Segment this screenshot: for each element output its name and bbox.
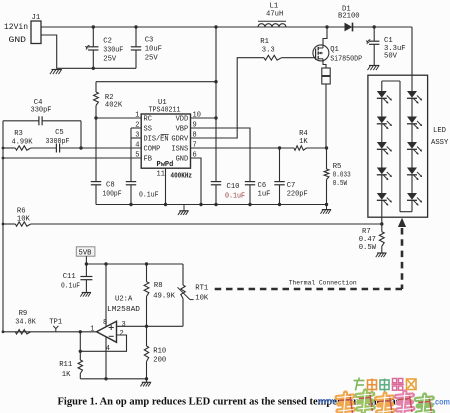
wire sense line left: [3, 223, 15, 225]
svg-text:0.1uF: 0.1uF: [61, 283, 80, 291]
op-amp U2:A: [97, 321, 117, 342]
junction RC: [94, 116, 97, 119]
junction Q1 drain: [325, 25, 328, 28]
junction VDD top: [214, 25, 217, 28]
resistor R3: [15, 146, 30, 150]
junction rail R5: [325, 203, 328, 206]
junction output node: [79, 330, 82, 333]
svg-text:C8: C8: [106, 182, 115, 190]
test point TP1: [55, 329, 57, 332]
wire R8 bottom: [146, 296, 148, 326]
wire pin4 ground drop: [105, 337, 107, 379]
junction R10 top: [145, 325, 148, 328]
wire Q1 drain: [323, 27, 327, 45]
svg-text:1uF: 1uF: [258, 191, 271, 199]
svg-text:1K: 1K: [62, 371, 71, 379]
resistor R5: [324, 169, 329, 180]
connector J1: [31, 21, 41, 44]
svg-text:4.99K: 4.99K: [12, 139, 34, 147]
svg-text:TPS40211: TPS40211: [149, 107, 181, 115]
junction R10 rail: [145, 377, 148, 380]
resistor R1: [264, 55, 282, 60]
svg-text:R5: R5: [333, 163, 342, 171]
svg-text:C1: C1: [384, 37, 393, 45]
svg-text:LM258AD: LM258AD: [107, 306, 140, 314]
wire: [411, 175, 413, 193]
svg-text:C6: C6: [258, 182, 267, 190]
svg-text:330pF: 330pF: [31, 107, 52, 115]
junction sense left: [2, 223, 5, 226]
ground J1: [52, 69, 62, 71]
wire ground rail: [96, 204, 327, 206]
svg-text:Figure 1. An op amp reduces LE: Figure 1. An op amp reduces LED current …: [58, 396, 409, 407]
wire left column top: [381, 81, 383, 91]
thermistor RT1: [181, 285, 185, 299]
svg-text:10K: 10K: [17, 216, 31, 224]
svg-text:11: 11: [157, 170, 165, 178]
capacitor C5: [55, 144, 57, 153]
junction 5VB rail: [85, 262, 88, 265]
svg-text:GND: GND: [176, 156, 189, 164]
svg-text:8: 8: [103, 319, 107, 327]
junction rail PwPd: [164, 203, 167, 206]
svg-text:2: 2: [120, 330, 124, 338]
svg-text:10uF: 10uF: [145, 46, 162, 54]
capacitor C11: [80, 276, 92, 278]
junction R8 top: [145, 262, 148, 265]
capacitor C1: [373, 27, 375, 41]
wire PwPd pin: [165, 168, 167, 204]
junction C4-COMP: [79, 146, 82, 149]
wire serpentine middle: [399, 81, 401, 212]
wire output: [3, 331, 97, 333]
svg-text:www.: www.: [317, 396, 337, 406]
svg-text:J1: J1: [32, 14, 41, 22]
svg-text:Q1: Q1: [330, 46, 339, 54]
svg-text:C10: C10: [227, 183, 240, 191]
wire RC pin: [96, 117, 141, 119]
junction FB left: [2, 157, 5, 160]
inductor L1: [258, 20, 286, 22]
svg-text:3: 3: [135, 132, 139, 140]
svg-text:ISNS: ISNS: [171, 146, 188, 154]
svg-text:R8: R8: [154, 282, 163, 290]
LED D4 right column: [407, 142, 417, 149]
junction C2 top: [92, 25, 95, 28]
svg-text:25V: 25V: [103, 56, 117, 64]
capacitor C2: [92, 27, 94, 47]
ground opamp: [146, 379, 148, 382]
junction rail GND pin: [199, 203, 202, 206]
svg-text:1K: 1K: [299, 138, 308, 146]
svg-text:.com: .com: [433, 397, 450, 407]
wire output drop: [79, 332, 81, 352]
wire GDRV: [191, 58, 265, 138]
wire: [411, 124, 413, 142]
wire Q1 source: [323, 61, 326, 68]
junction C7 tap: [278, 146, 281, 149]
LED D2 right column: [407, 91, 417, 98]
thermal arrowhead: [398, 218, 406, 227]
resistor R2: [94, 92, 99, 106]
watermark big characters: [337, 393, 354, 413]
ground R5 rail: [326, 205, 328, 210]
wire 5VB rail: [86, 263, 183, 265]
capacitor C3: [135, 27, 137, 47]
resistor R10: [146, 326, 148, 346]
junction COMP left: [2, 147, 5, 150]
svg-text:R3: R3: [14, 130, 23, 138]
resistor R4: [294, 146, 307, 150]
junction rail C6: [248, 203, 251, 206]
wire pin3 node: [117, 325, 184, 327]
wire R4 right: [307, 147, 327, 149]
svg-text:Thermal Connection: Thermal Connection: [289, 280, 357, 287]
svg-text:GDRV: GDRV: [171, 136, 189, 144]
wire R1 to gate: [282, 57, 315, 59]
svg-text:R4: R4: [299, 130, 308, 138]
LED D10 left column: [377, 168, 387, 175]
svg-text:0.1uF: 0.1uF: [225, 193, 245, 201]
svg-text:TP1: TP1: [49, 319, 62, 327]
svg-text:1: 1: [135, 112, 139, 120]
svg-text:34.8K: 34.8K: [15, 319, 36, 327]
wire ISNS pin: [191, 147, 295, 149]
wire R7 bottom: [381, 246, 383, 252]
svg-text:402K: 402K: [105, 101, 123, 109]
watermark small line GuangDianDianQiWang: [354, 378, 365, 391]
svg-text:U2:A: U2:A: [115, 296, 133, 304]
ground C1: [369, 65, 379, 67]
wire left rail: [2, 121, 4, 332]
LED D3 right column: [407, 117, 417, 124]
junction R7 sense: [380, 222, 383, 225]
svg-text:3300pF: 3300pF: [46, 138, 70, 146]
LED D8 left column: [377, 117, 387, 124]
wire: [411, 149, 413, 167]
svg-text:8: 8: [193, 132, 197, 140]
wire opamp V+ pin8: [105, 264, 107, 326]
svg-text:C2: C2: [103, 38, 112, 46]
svg-text:B2100: B2100: [338, 13, 360, 21]
ground R7: [377, 252, 386, 254]
component source pad boxes: [322, 68, 330, 76]
wire SS pin: [131, 127, 141, 129]
junction rail C9: [129, 203, 132, 206]
wire RT1 drop: [182, 264, 184, 285]
junction feedback node: [79, 350, 82, 353]
svg-text:FB: FB: [144, 156, 152, 164]
resistor R9: [15, 330, 30, 334]
wire top rail: [41, 26, 412, 28]
junction rail C7: [278, 203, 281, 206]
wire R5 bottom: [326, 180, 328, 205]
wire: [411, 98, 413, 116]
svg-text:L1: L1: [270, 3, 279, 11]
svg-text:100pF: 100pF: [103, 191, 122, 199]
LED D6 right column: [407, 193, 417, 200]
svg-text:VDD: VDD: [176, 116, 189, 124]
wire SS vertical: [130, 128, 132, 182]
svg-text:ASSY: ASSY: [431, 139, 449, 147]
capacitor C10: [211, 181, 221, 183]
wire R3-C5: [31, 147, 57, 149]
junction output left rail: [2, 330, 5, 333]
capacitor C6: [245, 181, 255, 183]
ground power rail: [183, 205, 185, 211]
svg-text:RT1: RT1: [195, 284, 208, 292]
wire R2 tap: [96, 81, 216, 83]
LED D5 right column: [407, 168, 417, 175]
wire GND pin: [191, 158, 202, 205]
svg-text:0.1uF: 0.1uF: [139, 192, 159, 200]
wire serpentine bottom: [400, 211, 412, 213]
ground C11: [82, 292, 91, 294]
svg-text:0.5W: 0.5W: [359, 244, 377, 252]
wire ISNS node to R5: [326, 148, 328, 169]
wire R2 to RC: [95, 106, 97, 182]
svg-text:5VB: 5VB: [79, 250, 93, 258]
wire COMP left: [3, 147, 15, 149]
svg-text:12Vin: 12Vin: [4, 24, 28, 32]
svg-text:GND: GND: [9, 35, 27, 45]
svg-text:0.033: 0.033: [333, 172, 351, 180]
wire J1 GND pin: [41, 35, 57, 69]
wire left column to R7: [381, 200, 383, 231]
wire sense line: [31, 223, 382, 225]
svg-text:400KHz: 400KHz: [171, 173, 193, 181]
wire: [381, 98, 383, 116]
wire: [381, 124, 383, 142]
capacitor C4: [3, 120, 39, 122]
svg-text:0.47: 0.47: [359, 236, 376, 244]
wire RT1 bottom: [182, 299, 184, 327]
svg-text:R9: R9: [19, 310, 28, 318]
resistor R11: [79, 351, 81, 360]
wire VDD pin: [191, 117, 217, 119]
svg-text:SS: SS: [144, 126, 152, 134]
svg-text:RC: RC: [144, 116, 152, 124]
svg-text:25V: 25V: [145, 55, 159, 63]
svg-text:220pF: 220pF: [287, 191, 308, 199]
svg-text:49.9K: 49.9K: [153, 293, 176, 301]
junction C2 bottom: [92, 67, 95, 70]
junction C3 top: [134, 25, 137, 28]
wire 5VB stem: [85, 256, 87, 276]
capacitor C7: [279, 148, 281, 182]
IC U1 body: [141, 114, 190, 168]
LED D11 left column: [377, 193, 387, 200]
svg-text:DIS/EN: DIS/EN: [144, 136, 169, 144]
wire Q1 source to ISNS: [325, 84, 327, 148]
svg-text:C7: C7: [287, 182, 296, 190]
svg-text:50V: 50V: [384, 53, 398, 61]
svg-text:10K: 10K: [195, 294, 209, 302]
wire FB pin: [3, 157, 141, 159]
wire LED feed: [411, 27, 413, 91]
svg-text:C11: C11: [63, 273, 76, 281]
junction VDD pin: [214, 116, 217, 119]
capacitor C9: [126, 181, 136, 183]
wire VBP pin: [191, 128, 251, 182]
wire input gnd net: [57, 67, 136, 69]
svg-text:330uF: 330uF: [103, 47, 123, 55]
svg-text:PwPd: PwPd: [157, 161, 174, 169]
svg-text:R6: R6: [17, 208, 26, 216]
junction rail C10: [214, 203, 217, 206]
svg-text:3.3: 3.3: [262, 46, 275, 54]
diode D1: [345, 23, 353, 32]
LED D7 left column: [377, 91, 387, 98]
resistor R7: [379, 232, 384, 247]
svg-text:R10: R10: [153, 348, 166, 356]
resistor R6: [15, 222, 30, 226]
svg-text:R7: R7: [362, 228, 371, 236]
wire opamp ground rail: [80, 378, 146, 380]
svg-text:VBP: VBP: [176, 126, 189, 134]
svg-text:2: 2: [135, 122, 139, 130]
wire VDD vertical: [215, 27, 217, 182]
junction opamp V+: [104, 262, 107, 265]
junction ISNS-Q1: [325, 146, 328, 149]
svg-text:C5: C5: [55, 129, 64, 137]
wire feedback: [80, 335, 126, 351]
svg-text:R1: R1: [260, 38, 269, 46]
svg-text:R11: R11: [59, 361, 72, 369]
thermal dashed vertical: [401, 228, 404, 289]
wire serpentine top: [382, 80, 400, 82]
junction C1 top: [373, 25, 376, 28]
svg-text:3: 3: [122, 321, 126, 329]
svg-text:10: 10: [193, 112, 201, 120]
svg-text:Si7850DP: Si7850DP: [330, 56, 362, 64]
wire COMP pin: [60, 147, 142, 149]
junction VDD tap: [214, 80, 217, 83]
wire right column bottom: [411, 200, 413, 211]
svg-text:200: 200: [153, 357, 166, 365]
wire DIS pin: [131, 137, 141, 139]
svg-text:C3: C3: [145, 37, 154, 45]
LED assembly box: [368, 75, 428, 217]
thermal dashed horizontal: [210, 288, 402, 291]
wire R8 top: [146, 264, 148, 282]
resistor R8: [144, 282, 149, 297]
svg-text:LED: LED: [433, 127, 446, 135]
svg-text:0.5W: 0.5W: [333, 180, 348, 188]
transistor Q1: [313, 45, 329, 61]
junction pin4 rail: [104, 377, 107, 380]
svg-text:COMP: COMP: [144, 146, 161, 154]
svg-text:47uH: 47uH: [266, 11, 283, 19]
LED D9 left column: [377, 142, 387, 149]
net flag 5VB: [76, 247, 95, 256]
wire R2 top: [95, 82, 97, 92]
wire: [381, 149, 383, 167]
capacitor C8: [91, 181, 101, 183]
wire: [381, 175, 383, 193]
